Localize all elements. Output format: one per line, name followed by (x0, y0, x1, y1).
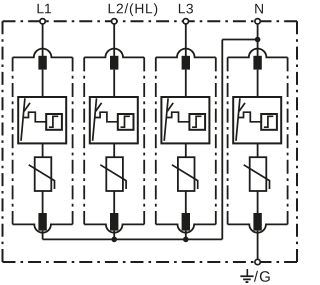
wire: varistor to bottom clamp (F3) (185, 191, 187, 213)
SPD module F4 (N path) outline with terminal bumps (228, 49, 288, 233)
wire: N input drop into module F4 (257, 24, 259, 56)
varistor RU4 (module F4) (244, 157, 270, 191)
wire: module F4 output down to PE node (257, 231, 259, 259)
varistor RU3 (module F3) (172, 157, 198, 191)
node L2 (input terminal) (112, 19, 117, 24)
wire: top clamp to disconnector box (F4) (257, 70, 259, 97)
wire: varistor to bottom clamp (F2) (113, 191, 115, 213)
terminal: top clamp of module F1 (38, 56, 46, 70)
node L1 (input terminal) (40, 19, 45, 24)
thermal disconnector with trigger unit (module F2) (90, 97, 138, 143)
wire: module F3 output down to bottom bus (185, 231, 187, 240)
wire: disconnector box to varistor (F3) (185, 143, 187, 157)
wire: riser from N junction down to bottom bus (221, 40, 223, 240)
thermal disconnector with trigger unit (module F1) (18, 97, 66, 143)
varistor RU2 (module F2) (100, 157, 126, 191)
thermal disconnector with trigger unit (module F3) (161, 97, 209, 143)
wire: disconnector box to varistor (F1) (42, 143, 44, 157)
wire: L3 input drop into module F3 (185, 24, 187, 56)
svg-text:L2/(HL): L2/(HL) (108, 1, 159, 16)
SPD module F2 (L2 path) outline with terminal bumps (84, 49, 144, 233)
wire: disconnector box to varistor (F2) (113, 143, 115, 157)
wire: disconnector box to varistor (F4) (257, 143, 259, 157)
terminal: bottom clamp of module F2 (110, 213, 118, 231)
junction: L2 output on bottom bus (111, 237, 117, 243)
wire: varistor to bottom clamp (F1) (42, 191, 44, 213)
ground (earth symbol) (240, 269, 253, 282)
wire: top clamp to disconnector box (F3) (185, 70, 187, 97)
terminal: bottom clamp of module F3 (182, 213, 190, 231)
enclosure border (dash-dot device outline) (3, 20, 298, 22)
terminal: bottom clamp of module F4 (253, 213, 261, 231)
terminal: top clamp of module F4 (253, 56, 261, 70)
wire: N junction to left riser (horizontal) (222, 39, 257, 41)
junction: L3 output on bottom bus (183, 237, 189, 243)
SPD module F3 (L3 path) outline with terminal bumps (156, 49, 216, 233)
terminal: top clamp of module F3 (182, 56, 190, 70)
wire: top clamp to disconnector box (F2) (113, 70, 115, 97)
svg-text:L3: L3 (178, 1, 194, 16)
wire: L1 input drop into module F1 (42, 24, 44, 56)
node N (input terminal) (255, 19, 260, 24)
junction: N line tap to riser (255, 37, 261, 43)
terminal: bottom clamp of module F1 (38, 213, 46, 231)
svg-text:L1: L1 (36, 1, 51, 16)
wire: module F1 output down to bottom bus (42, 231, 44, 240)
SPD module F1 (L1 path) outline with terminal bumps (13, 49, 73, 233)
svg-text:N: N (254, 1, 264, 16)
terminal: top clamp of module F2 (110, 56, 118, 70)
thermal disconnector with trigger unit (module F4) (233, 97, 281, 143)
wire: top clamp to disconnector box (F1) (42, 70, 44, 97)
svg-text:/G: /G (254, 269, 272, 285)
varistor RU1 (module F1) (29, 157, 55, 191)
wire: module F2 output down to bottom bus (113, 231, 115, 240)
wire: varistor to bottom clamp (F4) (257, 191, 259, 213)
node L3 (input terminal) (183, 19, 188, 24)
wire: L2 input drop into module F2 (113, 24, 115, 56)
node PE (earth terminal) (255, 259, 260, 264)
wire: bottom bus connecting L1 L2 L3 outputs to riser (43, 238, 223, 240)
